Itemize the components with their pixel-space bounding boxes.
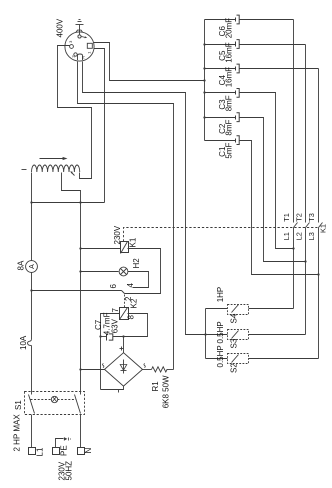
K1 pole 2 wire (L2 side) to switch S3 xyxy=(305,228,307,335)
wire: bus to S2 xyxy=(206,358,228,360)
svg-text:S3: S3 xyxy=(230,338,239,348)
diode inside bridge xyxy=(123,360,125,374)
wire: plug bottom pin 2 down and right to switch bus feed xyxy=(83,62,206,335)
tilde mark left AC corner xyxy=(102,363,103,367)
junction bus / C5 xyxy=(203,43,205,45)
wire: DC plus junction down to bridge xyxy=(123,337,125,353)
svg-text:1HP: 1HP xyxy=(216,287,225,303)
minus mark xyxy=(118,390,120,393)
wire: main line from inductor left end down (L line) xyxy=(31,173,33,261)
tilde mark right AC corner xyxy=(144,363,145,367)
relay coil K2 xyxy=(120,308,129,320)
svg-text:K1: K1 xyxy=(129,237,138,247)
wire: plug right lower pin down to node line xyxy=(94,49,105,203)
wire: C6 to contact wire 1 xyxy=(240,19,294,21)
svg-text:T3: T3 xyxy=(307,213,316,222)
PE arrow symbol xyxy=(56,439,64,448)
wire: C1 down to L3 node xyxy=(240,141,319,275)
junction bus / feed xyxy=(203,79,205,81)
svg-text:K1: K1 xyxy=(318,224,327,233)
ground (PE symbol above plug X1) xyxy=(76,20,84,32)
svg-text:H2: H2 xyxy=(132,258,141,269)
junction N bus / lamp wire xyxy=(79,270,81,272)
svg-text:5mF: 5mF xyxy=(225,142,234,158)
terminal N xyxy=(78,448,85,455)
switch S4 1HP xyxy=(228,305,249,315)
resistor R1 6K8 50W xyxy=(152,367,168,372)
dashed mechanical link K2 contact to K2 coil xyxy=(124,295,126,308)
svg-text:8A: 8A xyxy=(16,260,25,270)
S1 interlock circle-cross xyxy=(51,396,57,402)
wire: bus to S4 xyxy=(206,308,228,310)
svg-text:L2: L2 xyxy=(295,232,304,240)
wire: S4 to L1 node xyxy=(249,308,294,310)
S1 pole 1 blade xyxy=(29,395,35,414)
terminal PE xyxy=(53,448,60,455)
junction bus / C2 xyxy=(203,116,205,118)
svg-text:R1: R1 xyxy=(151,381,160,392)
svg-text:4: 4 xyxy=(126,283,135,288)
switch S3 0.5HP xyxy=(228,330,249,340)
fuse / breaker 10A xyxy=(28,340,32,346)
svg-text:L1: L1 xyxy=(282,232,291,240)
ammeter P1 8A xyxy=(26,261,38,273)
relay coil K1 xyxy=(121,242,129,253)
wire: C4 to contact wire 3 xyxy=(240,68,319,70)
connector plug 400V (CEE 5-pin) xyxy=(65,30,94,61)
wire: S3 to L2 node xyxy=(249,334,306,336)
wire: K1 coil to K2 contact pin 2 xyxy=(125,249,161,294)
contact K2 pin 6 wire from main line xyxy=(32,290,122,292)
svg-text:L3: L3 xyxy=(307,232,316,240)
wire: plug left pin to inductor right end xyxy=(58,46,92,179)
contactor K1 pole 3 wire (T3 side) xyxy=(318,69,320,223)
svg-text:S1: S1 xyxy=(14,400,23,410)
svg-text:0.5HP: 0.5HP xyxy=(216,345,225,367)
junction N bus / bridge AC wire xyxy=(79,368,81,370)
K1 pole 3 wire (L3 side) to switch S2 xyxy=(318,228,320,359)
svg-text:S4: S4 xyxy=(230,313,239,323)
svg-text:T2: T2 xyxy=(295,213,304,222)
capacitor C1 5mF xyxy=(205,140,236,142)
wire: node line y202 (ammeter line to plug wire, tap bus junction) xyxy=(32,202,105,204)
tap arrow tick on winding xyxy=(72,173,75,176)
svg-text:0.5HP: 0.5HP xyxy=(216,321,225,343)
wire: N bus to bridge AC left xyxy=(81,369,105,371)
svg-text:N: N xyxy=(81,56,86,59)
svg-text:7: 7 xyxy=(111,308,120,313)
inductor L (winding with tap) xyxy=(32,165,80,172)
main switch S1 2HP MAX xyxy=(25,392,85,415)
svg-text:2 HP MAX: 2 HP MAX xyxy=(12,414,21,452)
svg-text:10A: 10A xyxy=(19,335,28,350)
svg-text:K2: K2 xyxy=(130,298,139,308)
svg-text:6: 6 xyxy=(109,284,118,289)
junction L line / node line xyxy=(30,201,32,203)
S1 pole 2 blade xyxy=(75,395,81,414)
capacitor C2 8mF xyxy=(205,117,236,119)
plus mark xyxy=(120,348,124,350)
svg-text:63V: 63V xyxy=(110,318,119,333)
svg-text:8: 8 xyxy=(126,315,135,320)
wire: lamp H2 to K2 contact pin 4 xyxy=(128,272,149,288)
contact K2 changeover blade xyxy=(122,291,125,294)
svg-text:T1: T1 xyxy=(282,213,291,222)
junction node L1 / C3 link xyxy=(292,247,294,249)
svg-text:400V: 400V xyxy=(56,18,65,37)
wire: R1 to feed xyxy=(167,369,174,371)
contactor K1 pole 1 wire (T1 side) xyxy=(293,20,295,223)
wire: C2 down to L2 node xyxy=(240,118,306,262)
dashed mechanical link K1 coil to contacts xyxy=(124,228,318,242)
arrow above inductor xyxy=(40,158,65,160)
svg-text:50HZ: 50HZ xyxy=(64,461,73,481)
svg-text:PE: PE xyxy=(60,445,69,456)
K1 pole 1 wire (L1 side) to switch S4 xyxy=(293,228,295,309)
wire: N bus to K1 coil xyxy=(81,248,121,250)
capacitor C7 4.7mF 63V xyxy=(101,336,107,338)
svg-text:230V: 230V xyxy=(113,225,122,244)
junction switch bus / feed xyxy=(204,333,206,335)
svg-text:20mF: 20mF xyxy=(225,18,234,39)
wire: bridge minus loop xyxy=(101,387,124,390)
junction L line / K2 pin 6 wire xyxy=(30,289,32,291)
switch S2 0.5HP xyxy=(228,354,249,364)
capacitor C3 8mF xyxy=(205,92,236,94)
K1 pole 2 blade xyxy=(306,223,310,228)
wire: S2 to L3 node xyxy=(249,358,319,360)
wire: S1 to N terminal xyxy=(80,415,82,448)
junction N bus / K1 coil wire xyxy=(79,247,81,249)
capacitor C4 16mF xyxy=(205,68,236,70)
wire: K2 coil pin 7 to DC minus rail xyxy=(101,314,120,390)
switch bus vertical xyxy=(205,309,207,359)
svg-text:8mF: 8mF xyxy=(225,119,234,135)
contactor K1 pole 2 wire (T2 side) xyxy=(305,45,307,223)
bridge rectifier B1 xyxy=(105,353,143,386)
svg-text:S2: S2 xyxy=(230,363,239,373)
wire: bridge AC right to resistor R1 xyxy=(143,369,152,371)
lamp H2 xyxy=(119,267,128,276)
wire: C5 to contact wire 2 xyxy=(240,44,306,46)
dash mark left of inductor xyxy=(22,169,27,171)
svg-text:A: A xyxy=(29,264,36,269)
wire: K2 coil pin 8 to DC plus rail xyxy=(113,314,148,337)
capacitor C6 20mF xyxy=(205,19,236,21)
S1 mechanical link dashed xyxy=(31,399,52,401)
svg-text:6K8 50W: 6K8 50W xyxy=(162,375,171,408)
svg-text:N: N xyxy=(84,448,93,454)
svg-text:L1: L1 xyxy=(36,447,45,456)
wire: bus to S3 xyxy=(206,334,228,336)
wire: N bus to lamp H2 xyxy=(81,271,119,273)
junction bus / C4 xyxy=(203,67,205,69)
K1 pole 3 blade xyxy=(319,223,323,228)
svg-text:8mF: 8mF xyxy=(225,95,234,111)
svg-text:16mF: 16mF xyxy=(225,67,234,88)
wire: plug bottom pin 1 down and right to R1 feed xyxy=(78,62,174,370)
junction node L2 / C2 link xyxy=(304,260,306,262)
capacitor bus vertical xyxy=(204,20,206,141)
capacitor C5 16mF xyxy=(205,44,236,46)
terminal L1 (230V input) xyxy=(29,448,36,455)
junction N bus / node line xyxy=(79,201,81,203)
junction bus / C3 xyxy=(203,91,205,93)
svg-text:16mF: 16mF xyxy=(225,42,234,63)
wire: plug right upper pin to capacitor bus xyxy=(94,43,205,81)
wire: inductor tap down to N bus xyxy=(62,173,81,395)
junction node L3 / C1 link xyxy=(317,273,319,275)
wire: C3 down to L1 node xyxy=(240,93,294,249)
K1 pole 1 blade xyxy=(294,223,298,228)
